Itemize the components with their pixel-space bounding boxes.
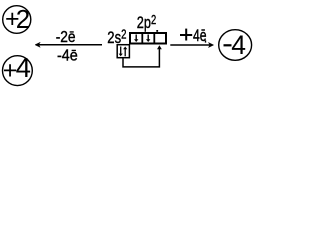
svg-text:-4ē: -4ē: [57, 47, 78, 65]
right arrowhead: [208, 43, 213, 48]
svg-text:2: 2: [16, 4, 30, 34]
2s orbital box: [117, 45, 129, 58]
label 2s2: [107, 28, 126, 47]
label -4e below left arrow: [57, 47, 78, 65]
scan artifact comma after e: [205, 40, 206, 42]
promotion connector wire: [123, 47, 159, 67]
down arrow in p cell 1: [134, 35, 138, 43]
ion circle +4: [3, 52, 33, 85]
label 2p2: [137, 13, 156, 32]
svg-text:4: 4: [16, 52, 31, 83]
right arrow shaft: [170, 44, 212, 46]
svg-text:4: 4: [231, 30, 246, 60]
artifact dot above third p cell: [156, 30, 158, 32]
2p orbital box row: [130, 33, 166, 44]
svg-text:-2ē: -2ē: [56, 28, 76, 46]
label +4e above right arrow: 4e part: [193, 27, 207, 45]
down arrow in 2s box: [119, 47, 123, 57]
up arrow in 2s box: [123, 47, 127, 57]
label +4e above right arrow: large plus sign: [180, 29, 192, 41]
left arrowhead: [35, 42, 40, 47]
ion circle -4: [219, 30, 252, 61]
promotion connector arrowhead up: [157, 45, 162, 49]
svg-text:4ē: 4ē: [193, 27, 207, 45]
ion circle +2: [3, 4, 31, 34]
left arrow shaft: [36, 44, 102, 46]
label -2e above left arrow: [56, 28, 76, 46]
down arrow in p cell 2: [146, 35, 150, 43]
